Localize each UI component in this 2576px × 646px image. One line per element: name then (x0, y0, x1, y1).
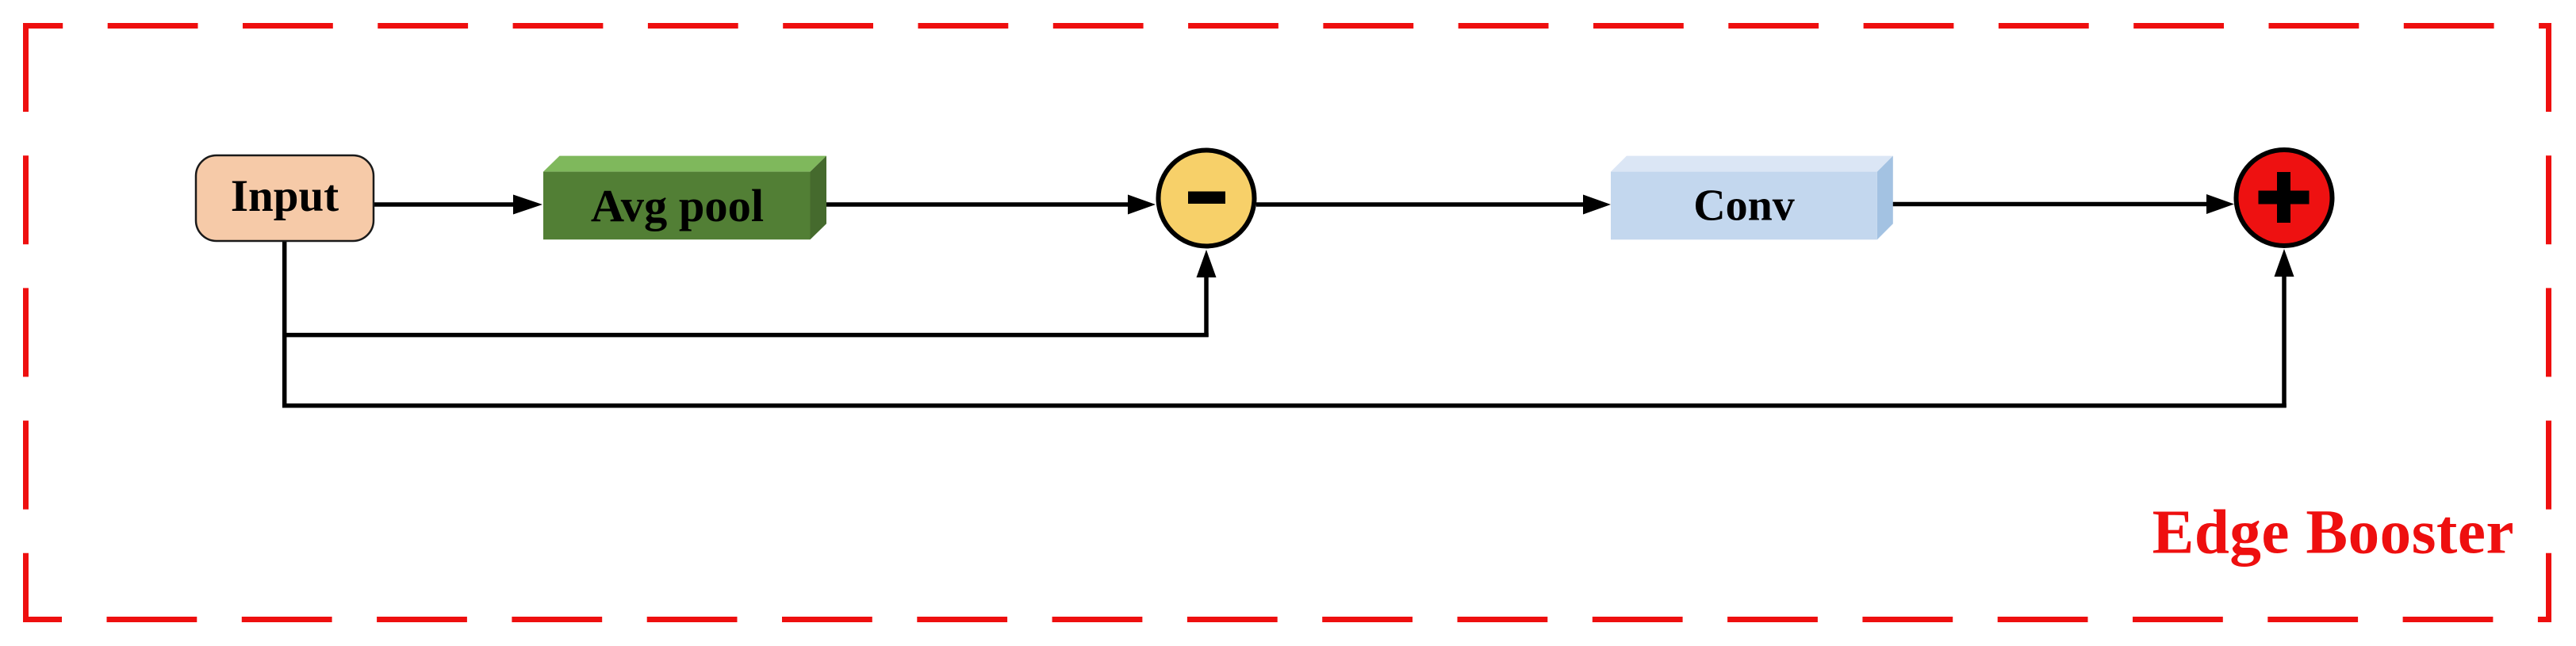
svg-text:Edge Booster: Edge Booster (2152, 499, 2514, 568)
svg-text:Input: Input (231, 171, 339, 221)
svg-text:Conv: Conv (1693, 181, 1795, 230)
svg-text:Avg pool: Avg pool (591, 180, 764, 231)
